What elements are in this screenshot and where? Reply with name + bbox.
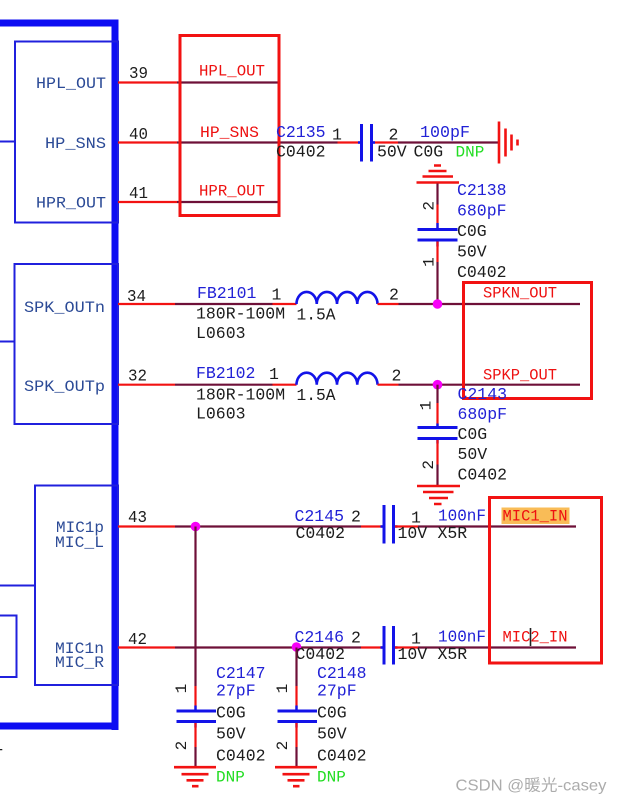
svg-text:C0G: C0G: [317, 704, 347, 723]
C2143 pin 1 label (rotated): [418, 401, 436, 411]
C2146 footprint C0402: [296, 645, 346, 664]
junction MIC1P: [191, 522, 201, 532]
C2135 designator: [276, 123, 326, 142]
pin number 42: [128, 630, 147, 649]
C2148 DNP flag: [317, 769, 346, 787]
left partial box: [0, 616, 17, 678]
wire pin41 to HPR_OUT label (red): [118, 201, 177, 203]
capacitor C2138 plates: [418, 223, 458, 247]
C2146 designator: [295, 628, 345, 647]
clipped text fragment bottom-left: [0, 746, 3, 765]
svg-text:MIC_L: MIC_L: [55, 534, 104, 552]
svg-text:HPR_OUT: HPR_OUT: [36, 195, 106, 213]
wire MIC1P net to C2145 (dark): [175, 525, 361, 527]
junction SPKP: [433, 380, 443, 390]
C2148 pin 1 stub (red): [295, 686, 297, 710]
C2138 voltage 50V: [457, 243, 487, 262]
svg-text:39: 39: [129, 64, 148, 83]
ferrite bead FB2102 coil: [297, 373, 378, 385]
ground up-pointing (above C2138): [417, 166, 460, 183]
svg-text:HPL_OUT: HPL_OUT: [199, 63, 265, 81]
C2147 pin 2 stub (red): [194, 723, 196, 747]
text cursor in MIC2_IN: [530, 628, 532, 646]
pin name MIC1n: [55, 640, 104, 658]
pin number 40: [129, 125, 148, 144]
svg-text:HP_SNS: HP_SNS: [200, 124, 259, 142]
wire C2147 pin2 to ground (dark): [194, 747, 196, 766]
C2146 pin 2 label: [351, 629, 361, 648]
C2143 value 680pF: [458, 405, 508, 424]
C2145 voltage 10V: [398, 524, 428, 543]
C2143 designator: [458, 385, 508, 404]
C2143 footprint C0402: [458, 466, 508, 485]
svg-text:MIC2_IN: MIC2_IN: [503, 629, 568, 647]
port label MIC1_IN: [503, 508, 568, 526]
C2145 designator: [295, 507, 345, 526]
FB2102 pin 1 label: [269, 365, 279, 384]
svg-text:2: 2: [389, 286, 399, 305]
svg-text:T: T: [0, 746, 3, 765]
wire SPKP net left (dark): [175, 384, 273, 386]
capacitor C2135 plates: [358, 124, 375, 162]
C2147 pin 1 label (rotated): [173, 684, 191, 694]
wire pin32 (red): [118, 384, 175, 386]
wire ground to C2138 pin2 (dark): [436, 184, 438, 205]
C2135 dielectric C0G: [414, 143, 444, 162]
C2146 pin 2 stub (red): [361, 646, 383, 648]
svg-text:C0402: C0402: [296, 524, 346, 543]
svg-text:MIC_R: MIC_R: [55, 654, 104, 672]
wire SPKN net right (dark): [399, 303, 581, 305]
wire HPL_OUT net (dark): [177, 81, 279, 83]
port label HPR_OUT: [199, 183, 265, 201]
svg-text:1: 1: [173, 684, 191, 694]
C2138 pin 2 label (rotated): [420, 201, 438, 211]
C2135 pin 1 label: [332, 126, 342, 145]
FB2101 pin 2 label: [389, 286, 399, 305]
svg-text:2: 2: [420, 201, 438, 211]
svg-text:C0G: C0G: [216, 704, 246, 723]
C2135 DNP flag: [456, 144, 485, 162]
svg-text:C0402: C0402: [216, 747, 266, 766]
svg-text:1.5A: 1.5A: [297, 386, 336, 405]
wire C2143 pin2 to ground (dark): [436, 465, 438, 486]
svg-text:1: 1: [332, 126, 342, 145]
svg-text:SPKN_OUT: SPKN_OUT: [483, 285, 557, 303]
C2145 value 100nF: [438, 507, 486, 526]
C2148 footprint C0402: [317, 747, 367, 766]
FB2101 pin 1 label: [272, 286, 282, 305]
wire HP_SNS net (dark): [177, 141, 338, 143]
wire MIC1N junction down to C2148 (dark): [295, 648, 297, 687]
C2145 dielectric X5R: [438, 524, 468, 543]
C2146 pin 1 stub (red): [395, 646, 418, 648]
C2138 value 680pF: [457, 202, 507, 221]
svg-text:FB2101: FB2101: [197, 284, 257, 303]
FB2102 footprint L0603: [196, 404, 246, 423]
svg-text:1: 1: [272, 286, 282, 305]
pin 2 stub of C2135 (red): [373, 141, 398, 143]
svg-text:X5R: X5R: [438, 524, 468, 543]
port label SPKP_OUT: [483, 367, 557, 385]
svg-text:CSDN @暖光-casey: CSDN @暖光-casey: [456, 777, 607, 795]
svg-text:1: 1: [274, 684, 292, 694]
capacitor C2143 plates: [418, 424, 458, 444]
wire MIC1_IN net (dark): [418, 525, 576, 527]
svg-text:C2143: C2143: [458, 385, 508, 404]
C2145 pin 1 stub (red): [395, 525, 418, 527]
capacitor C2146 plates: [381, 626, 398, 665]
wire SPKP junction to C2143 (dark): [436, 385, 438, 403]
svg-text:HP_SNS: HP_SNS: [45, 135, 106, 153]
C2135 voltage 50V: [377, 143, 407, 162]
svg-text:2: 2: [351, 508, 361, 527]
svg-text:C0G: C0G: [458, 425, 488, 444]
svg-text:100nF: 100nF: [438, 628, 486, 647]
wire C2138 pin1 to SPKN junction (dark): [436, 262, 438, 305]
red ports box SPKN/SPKP: [464, 283, 592, 399]
svg-text:1.5A: 1.5A: [297, 305, 336, 324]
C2148 dielectric C0G: [317, 704, 347, 723]
svg-text:2: 2: [420, 460, 438, 470]
svg-text:DNP: DNP: [216, 769, 245, 787]
ground below C2148: [275, 767, 317, 786]
svg-text:680pF: 680pF: [457, 202, 507, 221]
FB2102 current 1.5A: [297, 386, 336, 405]
C2147 designator: [216, 664, 266, 683]
C2135 value 100pF: [420, 123, 470, 142]
C2147 voltage 50V: [216, 725, 246, 744]
svg-text:C2147: C2147: [216, 664, 266, 683]
svg-text:40: 40: [129, 125, 148, 144]
wire MIC1P junction down to C2147 (dark): [194, 527, 196, 687]
pin name HPR_OUT: [36, 195, 106, 213]
C2147 value 27pF: [216, 682, 256, 701]
pin name MIC1p: [56, 519, 104, 537]
junction MIC1N: [292, 642, 302, 652]
svg-text:32: 32: [128, 367, 147, 386]
C2138 pin 1 stub (red): [436, 242, 438, 263]
svg-text:SPKP_OUT: SPKP_OUT: [483, 367, 557, 385]
svg-text:680pF: 680pF: [458, 405, 508, 424]
svg-text:43: 43: [128, 508, 147, 527]
pin 1 stub of C2135 (red): [338, 141, 361, 143]
wire pin40 to HP_SNS label (red): [118, 141, 177, 143]
pin name HP_SNS: [45, 135, 106, 153]
C2145 pin 2 label: [351, 508, 361, 527]
wire SPKN net left (dark): [175, 303, 273, 305]
svg-text:2: 2: [351, 629, 361, 648]
C2148 voltage 50V: [317, 725, 347, 744]
watermark: [456, 777, 607, 795]
C2143 pin 2 stub (red): [436, 440, 438, 465]
svg-text:C0402: C0402: [317, 747, 367, 766]
svg-text:1: 1: [420, 257, 438, 267]
svg-text:50V: 50V: [457, 243, 487, 262]
svg-text:C0G: C0G: [414, 143, 444, 162]
svg-text:X5R: X5R: [438, 645, 468, 664]
C2148 pin 1 label (rotated): [274, 684, 292, 694]
C2147 footprint C0402: [216, 747, 266, 766]
svg-text:50V: 50V: [377, 143, 407, 162]
C2145 footprint C0402: [296, 524, 346, 543]
C2145 pin 2 stub (red): [361, 525, 383, 527]
svg-text:C2135: C2135: [276, 123, 326, 142]
svg-text:180R-100M: 180R-100M: [196, 385, 285, 404]
FB2102 value 180R-100M: [196, 385, 285, 404]
C2146 pin 1 label: [411, 630, 421, 649]
wire pin34 (red): [118, 303, 175, 305]
C2147 pin 2 label (rotated): [173, 741, 191, 751]
svg-text:10V: 10V: [398, 524, 428, 543]
wire C2148 pin2 to ground (dark): [295, 747, 297, 766]
junction SPKN: [433, 299, 443, 309]
wire HPR_OUT net (dark): [177, 201, 279, 203]
pin name SPK_OUTn: [24, 299, 105, 317]
pin number 34: [127, 287, 146, 306]
ferrite bead FB2101 coil: [297, 292, 378, 304]
C2148 pin 2 label (rotated): [274, 741, 292, 751]
pin name SPK_OUTp: [24, 378, 105, 396]
C2147 DNP flag: [216, 769, 245, 787]
svg-text:100pF: 100pF: [420, 123, 470, 142]
C2148 designator: [317, 664, 367, 683]
ground right-pointing (HP_SNS net): [499, 122, 518, 164]
wire MIC2_IN net (dark): [418, 646, 576, 648]
svg-text:SPK_OUTn: SPK_OUTn: [24, 299, 105, 317]
svg-text:10V: 10V: [398, 645, 428, 664]
svg-text:27pF: 27pF: [317, 682, 357, 701]
svg-text:SPK_OUTp: SPK_OUTp: [24, 378, 105, 396]
wire pin42 (red): [118, 646, 175, 648]
C2138 designator: [457, 181, 507, 200]
C2147 dielectric C0G: [216, 704, 246, 723]
FB2101 footprint L0603: [196, 324, 246, 343]
pin number 32: [128, 367, 147, 386]
C2148 value 27pF: [317, 682, 357, 701]
svg-text:2: 2: [173, 741, 191, 751]
C2143 pin 2 label (rotated): [420, 460, 438, 470]
wire SPKP net right (dark): [399, 384, 581, 386]
svg-text:2: 2: [392, 367, 402, 386]
svg-text:C0402: C0402: [458, 466, 508, 485]
FB2101 value 180R-100M: [196, 305, 285, 324]
pin number 39: [129, 64, 148, 83]
svg-text:HPL_OUT: HPL_OUT: [36, 75, 106, 93]
SPK pin group box: [15, 264, 119, 424]
svg-text:DNP: DNP: [317, 769, 346, 787]
svg-text:C2138: C2138: [457, 181, 507, 200]
C2147 pin 1 stub (red): [194, 686, 196, 710]
C2138 pin 2 stub (red): [436, 205, 438, 229]
left stub line to HP box: [0, 141, 15, 143]
pin number 41: [129, 184, 148, 203]
C2143 dielectric C0G: [458, 425, 488, 444]
wire C2135 to ground (dark): [398, 141, 498, 143]
svg-text:50V: 50V: [458, 445, 488, 464]
C2135 footprint C0402: [276, 143, 326, 162]
left stub line to SPK box: [0, 341, 15, 343]
MIC pin group box: [35, 486, 118, 686]
red ports box MIC1_IN/MIC2_IN: [490, 498, 602, 664]
wire pin43 (red): [118, 525, 175, 527]
orange highlight MIC1_IN: [502, 508, 570, 525]
svg-text:1: 1: [418, 401, 436, 411]
FB2101 pin1 stub (red): [273, 303, 297, 305]
svg-text:HPR_OUT: HPR_OUT: [199, 183, 265, 201]
svg-text:DNP: DNP: [456, 144, 485, 162]
FB2102 pin1 stub (red): [273, 384, 297, 386]
ground down-pointing (below C2143): [417, 486, 460, 504]
port label HPL_OUT: [199, 63, 265, 81]
FB2101 pin2 stub (red): [378, 303, 399, 305]
wire pin39 to HPL_OUT label (red): [118, 81, 177, 83]
red ports box HPL/HPSNS/HPR: [180, 36, 279, 216]
pin name MIC_R: [55, 654, 104, 672]
svg-text:42: 42: [128, 630, 147, 649]
C2138 dielectric C0G: [457, 222, 487, 241]
FB2102 pin2 stub (red): [378, 384, 399, 386]
svg-text:FB2102: FB2102: [196, 364, 255, 383]
svg-text:100nF: 100nF: [438, 507, 486, 526]
svg-text:50V: 50V: [317, 725, 347, 744]
C2145 pin 1 label: [411, 509, 421, 528]
wire MIC1N net to C2146 (dark): [175, 646, 361, 648]
svg-text:1: 1: [269, 365, 279, 384]
IC block U2100 outline (thick blue): [0, 20, 119, 731]
HP pin group box: [15, 42, 118, 223]
C2148 pin 2 stub (red): [295, 723, 297, 747]
svg-text:C0402: C0402: [457, 263, 507, 282]
port label MIC2_IN: [503, 629, 568, 647]
capacitor C2147 plates: [177, 706, 217, 728]
C2146 value 100nF: [438, 628, 486, 647]
C2146 dielectric X5R: [438, 645, 468, 664]
pin number 43: [128, 508, 147, 527]
svg-text:L0603: L0603: [196, 324, 246, 343]
capacitor C2148 plates: [278, 706, 318, 728]
svg-text:L0603: L0603: [196, 404, 246, 423]
left stub line to MIC box: [0, 585, 35, 587]
svg-text:C0G: C0G: [457, 222, 487, 241]
svg-text:27pF: 27pF: [216, 682, 256, 701]
C2138 footprint C0402: [457, 263, 507, 282]
FB2102 pin 2 label: [392, 367, 402, 386]
port label HP_SNS: [200, 124, 259, 142]
pin name HPL_OUT: [36, 75, 106, 93]
C2135 pin 2 label: [389, 126, 399, 145]
ground below C2147: [174, 767, 216, 786]
svg-text:C0402: C0402: [276, 143, 326, 162]
svg-text:41: 41: [129, 184, 148, 203]
svg-text:180R-100M: 180R-100M: [196, 305, 285, 324]
pin name MIC_L: [55, 534, 104, 552]
svg-text:50V: 50V: [216, 725, 246, 744]
C2138 pin 1 label (rotated): [420, 257, 438, 267]
capacitor C2145 plates: [381, 505, 398, 544]
svg-text:MIC1_IN: MIC1_IN: [503, 508, 568, 526]
FB2101 current 1.5A: [297, 305, 336, 324]
C2143 voltage 50V: [458, 445, 488, 464]
svg-text:C0402: C0402: [296, 645, 346, 664]
svg-text:2: 2: [274, 741, 292, 751]
FB2102 designator: [196, 364, 255, 383]
FB2101 designator: [197, 284, 257, 303]
C2146 voltage 10V: [398, 645, 428, 664]
port label SPKN_OUT: [483, 285, 557, 303]
svg-text:C2148: C2148: [317, 664, 367, 683]
C2143 pin 1 stub (red): [436, 403, 438, 426]
